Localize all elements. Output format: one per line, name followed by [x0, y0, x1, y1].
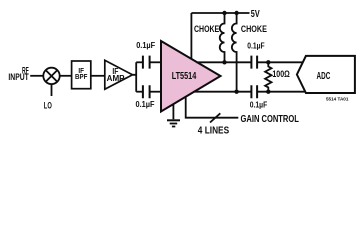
- junction dot resistor top: [266, 60, 270, 64]
- junction dot rail right: [234, 11, 238, 15]
- svg-text:AMP: AMP: [107, 74, 126, 83]
- capacitor C3 0.1uF top output: [251, 56, 257, 69]
- junction dot resistor bottom: [266, 90, 270, 94]
- ground: [172, 104, 174, 119]
- wire LO stub: [51, 84, 53, 96]
- svg-text:CHOKE: CHOKE: [194, 24, 219, 34]
- svg-text:LO: LO: [44, 101, 52, 111]
- wire bottom output line: [194, 91, 251, 93]
- wire mixer to BPF: [60, 75, 72, 77]
- node RF INPUT label: [8, 65, 29, 82]
- svg-text:INPUT: INPUT: [8, 72, 29, 82]
- svg-text:CHOKE: CHOKE: [241, 24, 267, 34]
- junction dot choke to bottom line: [234, 90, 238, 94]
- svg-text:BPF: BPF: [75, 72, 88, 81]
- wire BPF to amp: [91, 75, 105, 77]
- wire to top input cap: [136, 61, 142, 63]
- junction dot rail left: [222, 11, 226, 15]
- wire gain control: [186, 97, 239, 118]
- junction dot choke to top line: [222, 60, 226, 64]
- svg-text:0.1µF: 0.1µF: [250, 99, 267, 109]
- inductor L1 CHOKE left: [220, 12, 225, 61]
- capacitor C4 0.1uF bottom output: [251, 85, 257, 98]
- svg-text:5V: 5V: [251, 9, 260, 20]
- resistor R1 100 ohm: [265, 62, 271, 91]
- mixer M1: [43, 68, 59, 84]
- svg-text:GAIN CONTROL: GAIN CONTROL: [241, 114, 299, 125]
- svg-text:0.1µF: 0.1µF: [136, 99, 155, 109]
- svg-text:LT5514: LT5514: [172, 71, 197, 82]
- op-amp U1 LT5514: [161, 41, 221, 112]
- wire RF input to mixer: [30, 75, 43, 77]
- svg-text:100Ω: 100Ω: [272, 69, 289, 79]
- svg-text:0.1µF: 0.1µF: [247, 40, 264, 50]
- wire to bottom input cap: [136, 91, 142, 93]
- inductor L2 CHOKE right: [232, 12, 237, 91]
- ADC block: [297, 56, 355, 93]
- wire 5V drop: [190, 13, 192, 59]
- wire 5V rail: [191, 12, 249, 14]
- capacitor C2 0.1uF bottom input: [143, 85, 150, 98]
- capacitor C1 0.1uF top input: [143, 56, 150, 69]
- svg-text:4 LINES: 4 LINES: [198, 126, 229, 137]
- wire amp output bus: [133, 62, 137, 91]
- filter IF BPF: [72, 61, 91, 89]
- bus slash 4 lines: [210, 113, 220, 122]
- svg-text:0.1µF: 0.1µF: [136, 40, 155, 50]
- amplifier IF AMP: [105, 60, 133, 89]
- svg-text:ADC: ADC: [317, 71, 331, 82]
- svg-text:5514 TA01: 5514 TA01: [326, 97, 349, 102]
- wire top output line: [197, 61, 251, 63]
